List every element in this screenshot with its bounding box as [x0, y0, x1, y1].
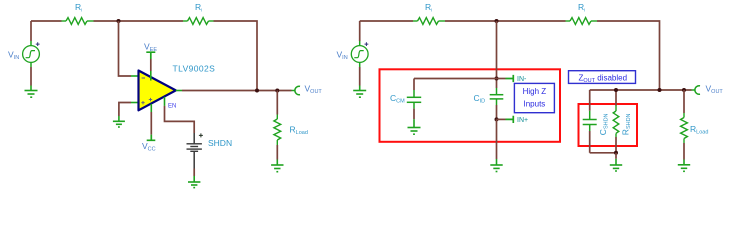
- ground below box1: [490, 159, 502, 172]
- resistor R2 (right): [566, 18, 598, 25]
- node junction A: [117, 19, 121, 23]
- resistor R1 (right): [413, 18, 445, 25]
- svg-text:High Z: High Z: [523, 87, 547, 96]
- node junction (right): [495, 19, 499, 23]
- wire output (right): [590, 89, 692, 91]
- red box 1 (input network): [380, 69, 561, 142]
- wire top rail left: [31, 20, 62, 22]
- wire rail mid (right): [445, 20, 566, 22]
- wire inverting input: [119, 21, 132, 76]
- wire CCM branch: [414, 78, 497, 80]
- node RLoad2 junction: [682, 88, 686, 92]
- wire node vertical (right): [496, 21, 498, 88]
- wire non-inverting input: [131, 102, 138, 104]
- terminal VCC: [147, 104, 156, 141]
- node IN+ junction: [495, 117, 499, 121]
- wire rail right + drop to output: [214, 21, 258, 91]
- svg-text:IN-: IN-: [517, 76, 527, 83]
- ground below VIN (right): [359, 67, 361, 86]
- voltage source VIN: [23, 42, 40, 62]
- red box 2 (shdn network): [579, 104, 638, 146]
- blue box ZOUT disabled: [569, 71, 636, 84]
- ground below RLoad (right): [678, 160, 690, 172]
- ground below box2: [615, 153, 617, 159]
- op-amp U1 TLV9002S: [139, 71, 176, 111]
- svg-text:IN+: IN+: [517, 117, 528, 124]
- svg-text:Inputs: Inputs: [524, 99, 546, 108]
- capacitor CSHDN: [589, 90, 591, 111]
- resistor RSHDN: [615, 90, 617, 106]
- terminal VOUT (right): [692, 89, 695, 91]
- wire rail (right): [360, 20, 413, 22]
- capacitor CID: [490, 88, 504, 105]
- resistor R2 (left feedback): [183, 18, 214, 25]
- wire rail right + drop (right): [597, 21, 660, 90]
- wire to ground below box1: [496, 119, 498, 159]
- node RSHDN top junction: [614, 88, 618, 92]
- ground below VIN: [30, 67, 32, 86]
- wire rail mid: [94, 20, 184, 22]
- svg-text:TLV9002S: TLV9002S: [173, 64, 216, 74]
- blue box High Z Inputs: [514, 83, 554, 112]
- node RLoad junction: [275, 89, 279, 93]
- svg-text:SHDN: SHDN: [208, 138, 232, 148]
- ground below RLoad (left): [271, 160, 283, 172]
- resistor RLoad (right): [683, 90, 685, 113]
- pin EN wire: [164, 97, 166, 106]
- wire VIN top: [30, 21, 32, 41]
- resistor R1 (left): [62, 18, 94, 25]
- node drop junction: [658, 88, 662, 92]
- pin IN+ stub: [497, 118, 506, 120]
- svg-text:EN: EN: [168, 104, 176, 110]
- ground at + input: [113, 116, 125, 127]
- terminal VOUT (left): [292, 90, 295, 92]
- ground below CCM: [408, 119, 421, 134]
- wire CID to IN+: [496, 105, 498, 119]
- node feedback junction: [255, 89, 259, 93]
- wire VIN top (right): [359, 21, 361, 41]
- wire output: [176, 90, 182, 92]
- node cross junction: [495, 77, 499, 81]
- voltage source VIN (right): [351, 42, 368, 62]
- node bottom junction: [614, 151, 618, 155]
- battery SHDN: [187, 144, 202, 152]
- wire bottom parallel: [590, 152, 616, 154]
- capacitor CCM: [407, 90, 421, 109]
- resistor RLoad (left): [276, 91, 278, 115]
- pin IN- stub: [497, 78, 506, 80]
- ground below battery: [188, 176, 200, 188]
